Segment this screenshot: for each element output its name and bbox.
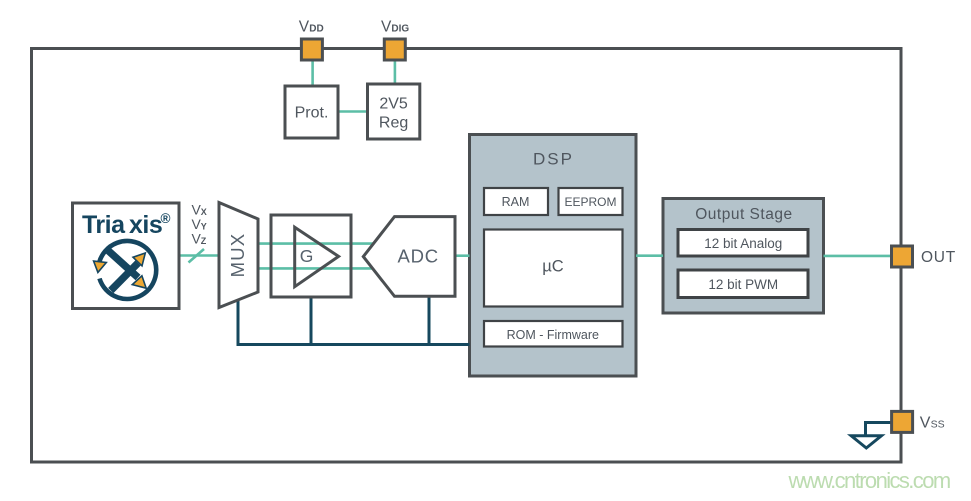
svg-text:Prot.: Prot. (295, 105, 329, 122)
svg-text:V: V (299, 19, 310, 36)
svg-text:V: V (381, 19, 392, 36)
svg-text:RAM: RAM (502, 195, 530, 209)
svg-text:www.cntronics.com: www.cntronics.com (788, 468, 950, 493)
svg-text:MUX: MUX (227, 233, 248, 278)
svg-text:Output Stage: Output Stage (695, 206, 792, 223)
svg-text:G: G (300, 246, 314, 266)
svg-text:Z: Z (201, 236, 207, 246)
svg-text:ROM - Firmware: ROM - Firmware (507, 328, 599, 342)
svg-text:DIG: DIG (391, 24, 409, 35)
svg-text:OUT: OUT (921, 249, 956, 266)
svg-text:12 bit Analog: 12 bit Analog (704, 236, 782, 251)
svg-text:Reg: Reg (379, 115, 408, 132)
svg-text:ADC: ADC (397, 246, 438, 267)
svg-text:12 bit PWM: 12 bit PWM (708, 277, 778, 292)
svg-text:®: ® (161, 211, 171, 226)
svg-text:X: X (201, 207, 207, 217)
svg-text:DSP: DSP (533, 150, 574, 169)
svg-text:Tria xis: Tria xis (82, 211, 162, 239)
svg-text:EEPROM: EEPROM (564, 195, 616, 209)
svg-text:2V5: 2V5 (379, 96, 408, 113)
svg-text:µC: µC (542, 258, 564, 276)
svg-text:Y: Y (201, 222, 207, 232)
svg-text:DD: DD (309, 24, 323, 35)
svg-text:V: V (920, 414, 931, 431)
svg-text:SS: SS (931, 418, 945, 430)
